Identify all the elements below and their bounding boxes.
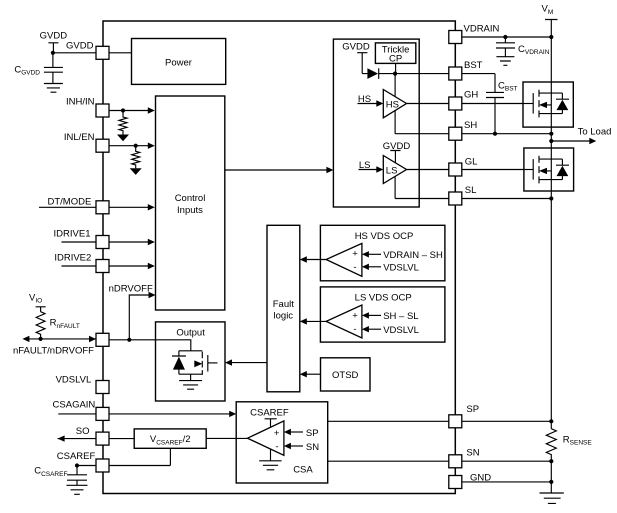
wire IDRIVE2 (62, 263, 155, 269)
wire OTSD to fault logic (300, 371, 321, 377)
resistor RSENSE (546, 429, 592, 462)
svg-text:DT/MODE: DT/MODE (47, 197, 91, 208)
node SL-VM junction (549, 196, 553, 200)
svg-text:GVDD: GVDD (40, 31, 68, 42)
ground CSA (259, 449, 281, 470)
wire CSA SP input (284, 428, 319, 439)
svg-text:INH/IN: INH/IN (66, 96, 95, 107)
block HS VDS OCP (320, 225, 445, 280)
svg-text:HS VDS OCP: HS VDS OCP (355, 231, 414, 242)
comparator HS VDS OCP (326, 243, 362, 276)
wire IDRIVE1 (62, 239, 155, 245)
svg-text:HS: HS (358, 94, 371, 105)
comparator LS VDS OCP (326, 305, 362, 338)
buffer HS (383, 90, 406, 118)
svg-text:+: + (352, 248, 358, 259)
svg-text:SO: SO (76, 426, 90, 437)
block gate driver (333, 39, 419, 207)
pin SN (449, 447, 480, 468)
svg-text:CCSAREF: CCSAREF (34, 466, 67, 478)
pin VDRAIN (449, 24, 500, 44)
svg-text:CSAREF: CSAREF (250, 407, 289, 418)
wire VM down to RSENSE (550, 191, 552, 429)
pin nFAULT/nDRVOFF (13, 333, 109, 356)
svg-text:CBST: CBST (498, 80, 518, 92)
svg-text:HS: HS (386, 99, 399, 110)
svg-text:SH: SH (464, 120, 477, 131)
wire SH net (395, 111, 551, 134)
svg-text:GH: GH (464, 89, 478, 100)
node SH-VM junction (549, 132, 553, 136)
ground CVDRAIN (496, 57, 514, 66)
capacitor CVDRAIN (496, 37, 550, 57)
wire GND net (455, 461, 551, 493)
ground arrow INL (130, 168, 142, 175)
svg-text:-: - (353, 324, 356, 335)
wire HS input (358, 94, 384, 107)
wire nFAULT pin to Output FET (103, 340, 191, 351)
wire DT/MODE (39, 204, 155, 210)
wire Trickle CP to BST (395, 63, 397, 73)
svg-text:VDRAIN: VDRAIN (464, 24, 500, 35)
svg-text:Control: Control (175, 193, 206, 204)
resistor INL pulldown (132, 146, 140, 169)
node SP junction (549, 419, 553, 423)
svg-text:RnFAULT: RnFAULT (50, 318, 80, 330)
wire fault logic to Output (225, 359, 267, 365)
transistor external FET HS (523, 82, 562, 127)
pin GH (449, 89, 479, 110)
pin IDRIVE1 (54, 229, 109, 249)
block VCSAREF/2 (134, 429, 206, 448)
svg-text:CSA: CSA (293, 465, 313, 476)
svg-text:CSAREF: CSAREF (57, 451, 96, 462)
wire VDRAIN-SH input (362, 250, 443, 261)
pin SH (449, 120, 478, 140)
svg-text:CSAGAIN: CSAGAIN (53, 399, 96, 410)
svg-text:OTSD: OTSD (332, 370, 359, 381)
block Trickle CP (375, 43, 415, 64)
node VDRAIN-CVDRAIN junction (503, 35, 507, 39)
wire VDSLVL input HS (362, 263, 419, 274)
svg-text:Output: Output (176, 327, 205, 338)
svg-text:SN: SN (306, 442, 319, 453)
node GND junction (549, 480, 553, 484)
wire nDRVOFF to Control Inputs (109, 284, 156, 340)
pin GL (449, 157, 478, 176)
block Power (132, 39, 226, 85)
pin GVDD (66, 41, 109, 60)
svg-text:nDRVOFF: nDRVOFF (109, 284, 153, 295)
block Control Inputs (156, 96, 225, 310)
svg-text:Inputs: Inputs (177, 205, 203, 216)
wire CSA output to VCSAREF/2 (206, 437, 247, 439)
pin GND (449, 473, 491, 489)
box external FET low-side (524, 148, 574, 191)
capacitor CGVDD (14, 53, 63, 84)
wire LS OCP output to fault logic (300, 318, 326, 324)
wire VDSLVL input LS (362, 325, 419, 336)
node CBST-SH junction (493, 132, 497, 136)
svg-text:-: - (353, 262, 356, 273)
node RnFAULT junction (39, 337, 43, 341)
supply GVDD LS buffer (383, 141, 411, 163)
wire CSA SN input (284, 442, 319, 453)
pin SO (76, 426, 109, 445)
block OTSD (321, 358, 371, 391)
wire To Load (551, 127, 611, 145)
node VDRAIN-VM junction (549, 35, 553, 39)
wire CSAREF pin to VCSAREF/2 (77, 448, 170, 465)
buffer LS (383, 156, 406, 184)
svg-text:VDSLVL: VDSLVL (56, 374, 92, 385)
wire VM between FETs (550, 127, 552, 148)
box external FET high-side (523, 82, 573, 127)
ground arrow INH (117, 135, 129, 142)
svg-text:VDSLVL: VDSLVL (383, 263, 419, 274)
svg-text:SL: SL (465, 185, 477, 196)
pin VDSLVL (56, 374, 109, 393)
svg-text:+: + (274, 428, 280, 439)
block CSA (236, 402, 328, 483)
svg-text:logic: logic (274, 311, 294, 322)
pin BST (449, 60, 483, 80)
svg-text:LS VDS OCP: LS VDS OCP (355, 293, 412, 304)
svg-text:INL/EN: INL/EN (64, 132, 95, 143)
wire GL net (407, 169, 524, 171)
block Fault logic (267, 225, 300, 391)
diode external FET HS body (556, 93, 569, 114)
svg-text:GVDD: GVDD (66, 41, 94, 52)
wire INH/IN to Control Inputs (103, 107, 155, 113)
wire Control Inputs to gate driver (225, 167, 334, 173)
node INL junction (134, 144, 138, 148)
supply GVDD gate driver top (342, 41, 370, 73)
ground Output FET (179, 374, 202, 389)
svg-text:BST: BST (464, 60, 483, 71)
node BST junction (393, 72, 397, 76)
pin INL/EN (64, 132, 109, 152)
node GVDD junction (51, 51, 55, 55)
wire nFAULT external with arrows (22, 336, 96, 343)
pin SL (449, 185, 477, 205)
wire SH-SL input (362, 311, 419, 322)
svg-text:VCSAREF/2: VCSAREF/2 (150, 434, 191, 447)
svg-text:SP: SP (306, 428, 319, 439)
svg-text:Power: Power (165, 58, 192, 69)
svg-text:IDRIVE2: IDRIVE2 (54, 252, 91, 263)
diode Output FET body (172, 351, 186, 374)
capacitor CCSAREF (34, 466, 87, 486)
svg-text:VDRAIN – SH: VDRAIN – SH (383, 250, 443, 261)
wire GVDD to Power (53, 52, 132, 54)
ground RSENSE (540, 493, 564, 503)
svg-text:+: + (352, 310, 358, 321)
transistor Output FET (179, 351, 218, 375)
supply GVDD external (40, 31, 68, 53)
pin INH/IN (66, 96, 109, 117)
svg-text:LS: LS (386, 165, 398, 176)
pin DT/MODE (47, 197, 109, 214)
diode trickle charge (367, 68, 378, 79)
node To Load junction (549, 139, 553, 143)
svg-text:VIO: VIO (29, 292, 42, 304)
svg-text:nFAULT/nDRVOFF: nFAULT/nDRVOFF (13, 346, 94, 357)
pin IDRIVE2 (54, 252, 109, 272)
wire SO output (58, 435, 135, 441)
ground CGVDD (44, 84, 63, 93)
node CCSAREF junction (75, 463, 79, 467)
node SN junction (549, 459, 553, 463)
svg-text:LS: LS (359, 160, 371, 171)
diode external FET LS body (556, 159, 569, 180)
IC boundary (103, 21, 455, 494)
svg-text:SP: SP (466, 404, 479, 415)
svg-text:CP: CP (389, 53, 402, 64)
svg-text:SH – SL: SH – SL (383, 311, 418, 322)
svg-text:SN: SN (466, 447, 479, 458)
wire INL/EN to Control Inputs (103, 143, 155, 149)
amplifier CSA (248, 419, 284, 456)
transistor external FET LS (524, 148, 563, 191)
wire SL net (395, 177, 551, 199)
block LS VDS OCP (320, 287, 445, 342)
wire SN net (328, 460, 552, 462)
node INH junction (121, 108, 125, 112)
svg-text:CGVDD: CGVDD (14, 64, 40, 76)
supply VM (542, 4, 558, 83)
ground CCSAREF (67, 485, 88, 494)
svg-text:CVDRAIN: CVDRAIN (518, 44, 550, 56)
resistor INH pulldown (119, 111, 127, 135)
svg-text:To Load: To Load (578, 127, 612, 138)
svg-text:GVDD: GVDD (342, 41, 370, 52)
svg-text:-: - (275, 442, 278, 453)
svg-text:GL: GL (465, 157, 478, 168)
svg-text:IDRIVE1: IDRIVE1 (54, 229, 91, 240)
wire LS input (359, 160, 384, 173)
pin CSAREF (57, 451, 109, 472)
resistor RnFAULT (36, 312, 80, 339)
wire SP net (328, 420, 552, 422)
pin CSAGAIN (53, 399, 109, 420)
wire HS OCP output to fault logic (300, 256, 326, 262)
block Output (156, 322, 226, 401)
svg-text:VM: VM (542, 4, 554, 16)
svg-text:VDSLVL: VDSLVL (383, 325, 419, 336)
svg-text:GND: GND (470, 473, 491, 484)
wire VDRAIN net (455, 36, 551, 38)
capacitor CBST (486, 74, 518, 134)
wire GH net (407, 103, 524, 105)
pin SP (449, 404, 479, 428)
node nDRVOFF junction (127, 338, 131, 342)
svg-text:Fault: Fault (273, 299, 294, 310)
supply VIO (29, 292, 46, 311)
wire BST net (379, 73, 495, 75)
wire BST to HS buffer (394, 74, 396, 97)
wire CSAGAIN to CSA (58, 411, 236, 417)
svg-text:RSENSE: RSENSE (563, 434, 593, 446)
